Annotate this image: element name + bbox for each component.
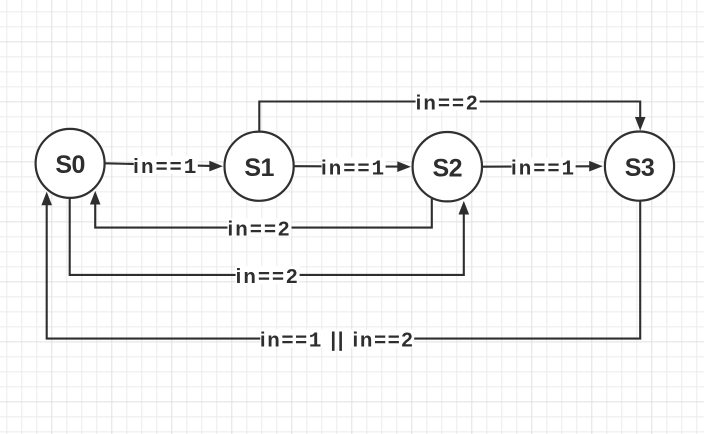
state S2 (413, 132, 482, 201)
transition S2->S0 (90, 191, 432, 228)
svg-text:in==2: in==2 (227, 218, 291, 241)
svg-text:in==1: in==1 (133, 155, 198, 180)
svg-text:in==2: in==2 (416, 92, 480, 115)
state S0 (36, 129, 105, 198)
transition S0->S2 (70, 198, 469, 275)
state S3 (605, 132, 674, 201)
label in==1 (S0->S1) (133, 155, 198, 180)
svg-text:S1: S1 (244, 154, 274, 182)
svg-text:S3: S3 (625, 154, 654, 182)
svg-text:S0: S0 (55, 151, 84, 179)
state S1 (225, 132, 294, 201)
transition S1->S3 (top) (259, 102, 645, 132)
label in==2 (S2->S0) (227, 218, 291, 241)
svg-text:in==2: in==2 (236, 265, 300, 288)
svg-text:S2: S2 (433, 155, 462, 183)
label in==2 (S1->S3) (416, 92, 480, 115)
svg-text:in==1: in==1 (321, 156, 386, 181)
transition S0->S1 (105, 161, 223, 172)
label in==1 (S2->S3) (511, 156, 576, 181)
label in==1 || in==2 (S3->S0) (260, 329, 415, 354)
label in==1 (S1->S2) (321, 156, 386, 181)
svg-text:in==1: in==1 (511, 156, 576, 181)
label in==2 (S0->S2) (236, 265, 300, 288)
transition S1->S2 (295, 161, 411, 172)
transition S2->S3 (483, 161, 603, 172)
svg-text:in==1 || in==2: in==1 || in==2 (260, 329, 415, 354)
transition S3->S0 (bottom) (41, 192, 640, 339)
